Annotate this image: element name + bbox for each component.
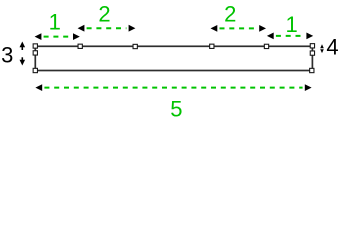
height arrow 4: tiny down head xyxy=(320,49,324,53)
dimension arrow 5 bottom: left head xyxy=(35,84,42,91)
svg-text:2: 2 xyxy=(224,2,236,27)
svg-text:1: 1 xyxy=(285,12,297,37)
height arrow 4: tiny up head xyxy=(320,44,324,48)
dimension arrow 1 left: left head xyxy=(35,33,42,40)
height arrow 3 down: stem xyxy=(21,57,23,60)
dimension arrow 2 right: left head xyxy=(211,25,218,32)
dimension arrow 1 right: dashed line xyxy=(276,35,304,37)
dimension arrow 2 left: dashed line xyxy=(87,27,127,29)
node T3 xyxy=(133,44,137,48)
dimension arrow 2 right: right head xyxy=(259,25,266,32)
dimension arrow 1 left: dashed line xyxy=(44,36,72,38)
height arrow 3 up: head xyxy=(20,42,26,48)
node R2 right edge xyxy=(310,51,314,55)
node T5 xyxy=(264,44,268,48)
dimension arrow 1 left: right head xyxy=(73,33,80,40)
node B1 bottom-left corner xyxy=(33,68,37,72)
dimension arrow 2 right: dashed line xyxy=(220,27,258,29)
height arrow 3 down: head xyxy=(20,60,26,66)
bar outline xyxy=(35,46,312,70)
height arrow 3 up: stem xyxy=(21,47,23,51)
node T2 xyxy=(78,44,82,48)
svg-text:4: 4 xyxy=(326,35,338,60)
svg-text:5: 5 xyxy=(170,96,182,118)
node T6 top-right corner xyxy=(310,44,314,48)
node T4 xyxy=(210,44,214,48)
svg-text:3: 3 xyxy=(1,43,13,68)
dimension arrow 5 bottom: dashed line xyxy=(44,87,302,89)
dimension arrow 1 right: right head xyxy=(306,33,313,40)
node T1 top-left corner xyxy=(33,44,37,48)
dimension arrow 2 left: right head xyxy=(129,25,136,32)
node L2 left edge xyxy=(33,51,37,55)
svg-text:1: 1 xyxy=(49,10,61,35)
node B2 bottom-right corner xyxy=(310,68,314,72)
dimension arrow 1 right: left head xyxy=(267,33,274,40)
dimension arrow 2 left: left head xyxy=(78,25,85,32)
svg-text:2: 2 xyxy=(98,2,110,27)
dimension arrow 5 bottom: right head xyxy=(305,84,312,91)
